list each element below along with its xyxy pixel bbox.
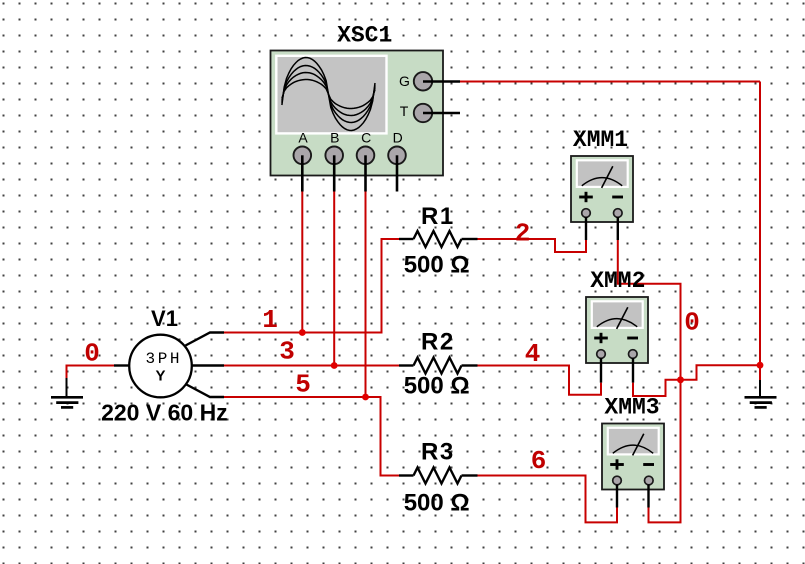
svg-text:4: 4 xyxy=(525,339,541,369)
wire node6: R3 to XMM3 plus xyxy=(478,476,618,523)
wire node0 left: ground to V1 xyxy=(67,366,115,381)
oscilloscope XSC1 xyxy=(271,51,461,192)
svg-text:XSC1: XSC1 xyxy=(337,23,392,49)
wire scope channel B drop xyxy=(333,192,335,366)
svg-text:A: A xyxy=(298,129,308,145)
svg-text:T: T xyxy=(400,103,409,119)
wire scope channel C drop xyxy=(365,192,367,398)
ground GND1 left xyxy=(51,378,83,407)
svg-text:5: 5 xyxy=(295,370,311,400)
resistor R1 xyxy=(399,231,478,247)
svg-text:B: B xyxy=(330,129,339,145)
XSC1 pin B xyxy=(325,147,343,165)
wire node2: R1 to XMM1 plus xyxy=(478,239,587,252)
svg-text:XMM2: XMM2 xyxy=(590,268,645,294)
XSC1 pin T xyxy=(414,104,432,122)
svg-text:0: 0 xyxy=(84,339,100,369)
svg-text:500 Ω: 500 Ω xyxy=(404,490,470,517)
wire node1: V1 top pin to R1 via scope A xyxy=(224,239,399,333)
XMM3 pin stubs xyxy=(616,485,618,508)
svg-text:R2: R2 xyxy=(421,329,455,356)
wire node3: V1 mid pin to R2 via scope B xyxy=(224,365,399,367)
wire right rail down xyxy=(759,82,761,382)
svg-text:6: 6 xyxy=(531,446,547,476)
XMM1 pin stubs xyxy=(585,217,587,240)
svg-text:V1: V1 xyxy=(151,306,178,331)
svg-text:XMM3: XMM3 xyxy=(604,395,659,421)
ground GND2 right xyxy=(745,380,777,407)
multimeter XMM1 xyxy=(571,156,633,222)
svg-text:220 V 60 Hz: 220 V 60 Hz xyxy=(101,399,228,425)
multimeter XMM2 xyxy=(586,297,648,363)
svg-text:C: C xyxy=(361,129,371,145)
junction node1/A xyxy=(299,329,306,336)
svg-text:R1: R1 xyxy=(421,203,455,230)
svg-text:XMM1: XMM1 xyxy=(573,127,628,153)
svg-text:500 Ω: 500 Ω xyxy=(404,252,470,279)
svg-text:3: 3 xyxy=(279,337,295,367)
svg-text:Y: Y xyxy=(155,368,165,385)
XSC1 pin D xyxy=(388,147,406,165)
svg-text:1: 1 xyxy=(262,305,278,335)
XMM2 pin stubs xyxy=(600,358,602,383)
multimeter XMM3 xyxy=(602,424,664,490)
junction node0 bus xyxy=(677,376,684,383)
svg-text:R3: R3 xyxy=(421,439,455,466)
wire node4: R2 to XMM2 plus xyxy=(478,366,602,395)
wire scope G to right rail xyxy=(460,81,760,83)
svg-text:3PH: 3PH xyxy=(146,350,183,368)
svg-text:500 Ω: 500 Ω xyxy=(404,373,470,400)
XSC1 pin C xyxy=(357,147,375,165)
svg-text:2: 2 xyxy=(515,219,531,249)
junction right rail xyxy=(757,362,764,369)
3-phase source V1 xyxy=(114,333,224,398)
wire scope channel A drop xyxy=(301,192,303,333)
svg-text:0: 0 xyxy=(684,308,700,338)
junction node3/B xyxy=(331,362,338,369)
XSC1 pin A xyxy=(294,147,312,165)
svg-text:G: G xyxy=(399,73,410,89)
resistor R2 xyxy=(399,358,478,374)
wire node0: XMM1 minus down to bus xyxy=(618,240,681,522)
resistor R3 xyxy=(399,468,478,484)
svg-text:D: D xyxy=(393,129,403,145)
wire node5: V1 bottom pin to R3 via scope C xyxy=(224,397,399,476)
wire node0: XMM2 minus to bus xyxy=(633,380,680,396)
XSC1 pin G xyxy=(414,72,432,90)
wire node0: bus to right ground xyxy=(681,365,761,380)
junction node5/C xyxy=(362,394,369,401)
